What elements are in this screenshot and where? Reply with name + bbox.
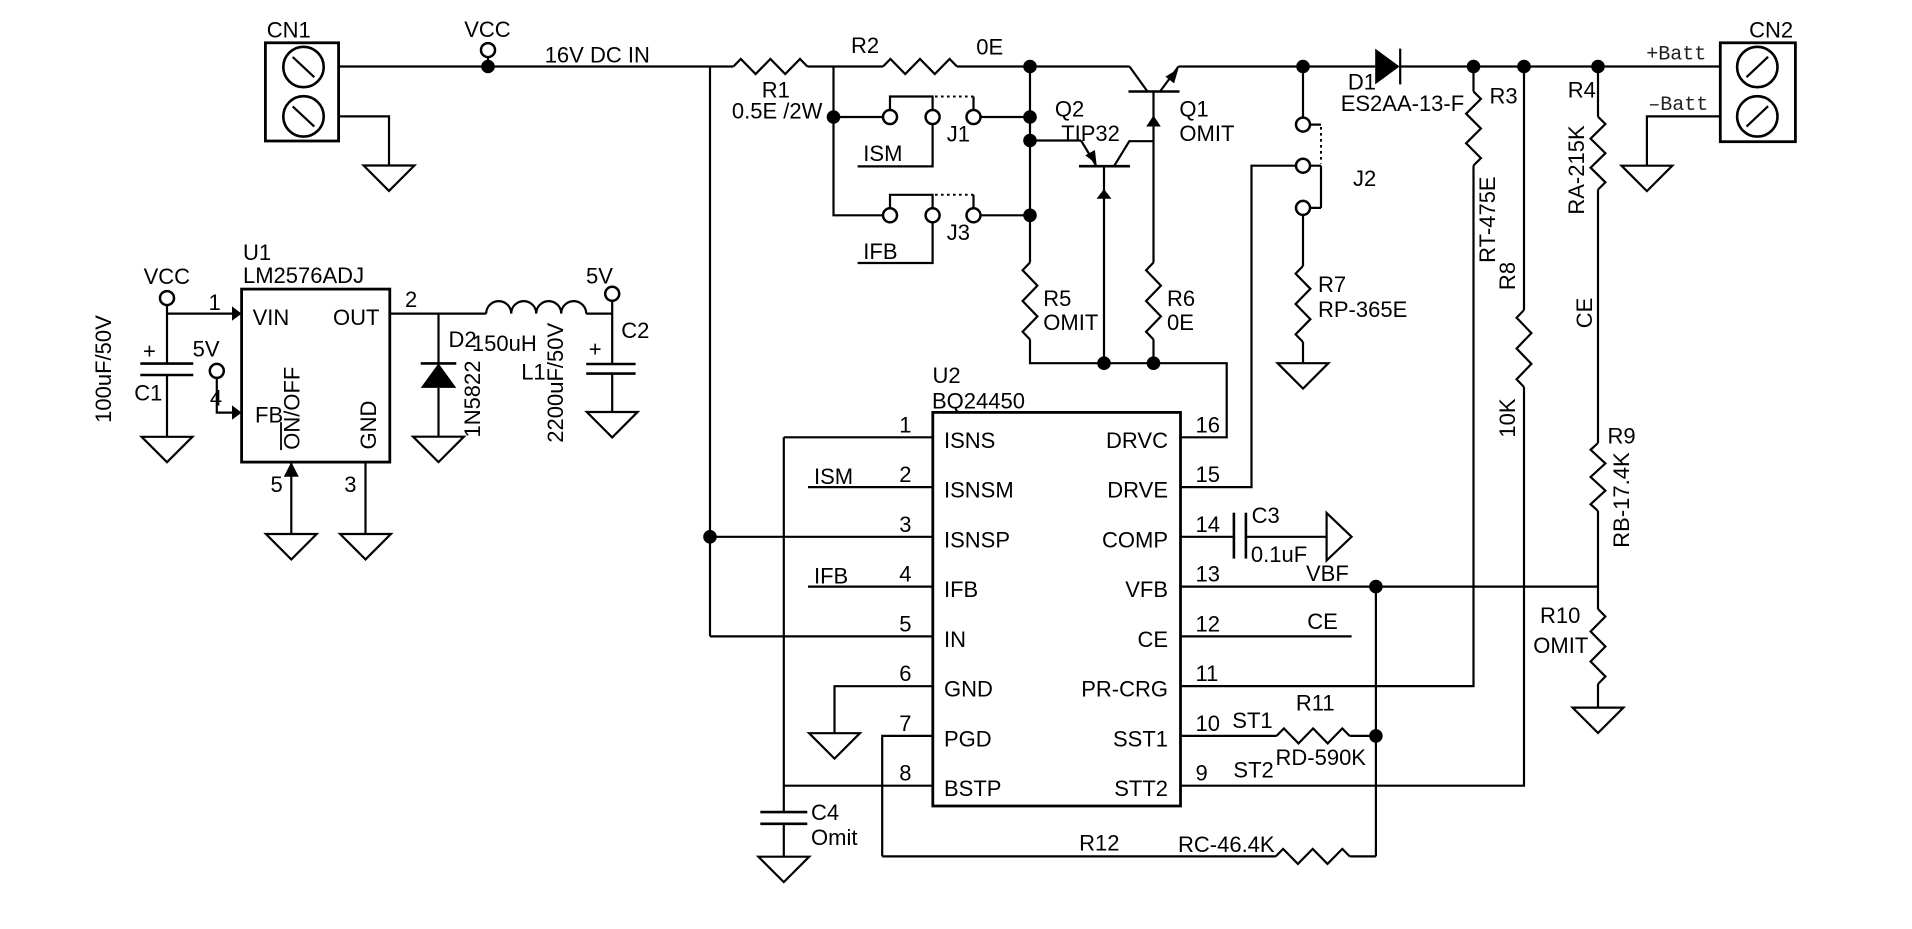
net label ISM (pin2)	[808, 486, 933, 488]
junction J2 branch	[1296, 60, 1310, 74]
svg-text:IFB: IFB	[814, 564, 848, 589]
junction J1 branch	[827, 110, 841, 124]
power node 5V (U1)	[210, 364, 224, 378]
wire R1 to R2	[807, 65, 883, 67]
svg-text:IFB: IFB	[863, 239, 897, 264]
diode D1 (ES2AA-13-F)	[1375, 49, 1400, 85]
wire bus down to R5	[1029, 67, 1031, 263]
ground (U1 pin3)	[340, 534, 391, 559]
ground (C1)	[142, 437, 193, 462]
svg-text:0E: 0E	[1167, 310, 1194, 335]
svg-text:7: 7	[899, 711, 911, 736]
svg-text:8: 8	[899, 761, 911, 786]
ground (U1 pin5)	[266, 534, 317, 559]
svg-text:+: +	[143, 339, 156, 364]
svg-text:DRVC: DRVC	[1106, 428, 1168, 453]
svg-text:R6: R6	[1167, 286, 1195, 311]
wire CN1 pin2 to ground	[339, 116, 389, 165]
ground (R7)	[1278, 363, 1329, 388]
svg-text:9: 9	[1196, 761, 1208, 786]
wire bus to Q2 emitter	[1030, 139, 1081, 141]
svg-text:13: 13	[1196, 562, 1220, 587]
diode D2 (1N5822)	[421, 314, 457, 437]
resistor R2	[883, 59, 957, 74]
resistor R4 (RA-215K)	[1597, 67, 1599, 117]
wire GND pin6 to ground	[835, 686, 934, 733]
resistor R5 (OMIT)	[1023, 263, 1038, 340]
svg-text:ISNSM: ISNSM	[944, 478, 1014, 503]
svg-text:Omit: Omit	[811, 825, 857, 850]
wire J3 pin2 to IFB stub	[858, 222, 933, 263]
svg-text:0.1uF: 0.1uF	[1251, 542, 1307, 567]
ground (D2)	[413, 437, 464, 462]
svg-text:RB-17.4K: RB-17.4K	[1609, 452, 1634, 548]
svg-text:5: 5	[271, 472, 283, 497]
svg-text:SST1: SST1	[1113, 726, 1168, 751]
junction J1 bus	[1023, 110, 1037, 124]
svg-text:1: 1	[899, 412, 911, 437]
wire J1 pin2 to ISM stub	[858, 124, 933, 166]
resistor R6 (0E)	[1146, 263, 1161, 340]
svg-text:5: 5	[899, 611, 911, 636]
inductor L1 (150uH)	[486, 301, 586, 314]
svg-text:R5: R5	[1043, 286, 1071, 311]
svg-text:OMIT: OMIT	[1179, 121, 1234, 146]
svg-text:+Batt: +Batt	[1646, 44, 1706, 67]
resistor R9 (RB-17.4K)	[1591, 443, 1606, 511]
wire R9 to R10 junction	[1597, 511, 1599, 609]
ground (CN2)	[1622, 166, 1673, 191]
svg-text:2: 2	[899, 462, 911, 487]
svg-text:R3: R3	[1490, 84, 1518, 109]
junction R3 rail	[1467, 60, 1481, 74]
capacitor C1 (100uF/50V)	[140, 314, 193, 437]
wire SST1 pin10 to R11	[1181, 735, 1277, 737]
svg-text:RD-590K: RD-590K	[1276, 745, 1367, 770]
junction ISNSP bus	[703, 530, 717, 544]
connector CN1	[265, 43, 338, 141]
svg-text:IFB: IFB	[944, 577, 978, 602]
svg-text:RA-215K: RA-215K	[1564, 125, 1589, 215]
svg-text:OUT: OUT	[333, 305, 379, 330]
wire J2 pin3 to R7	[1302, 215, 1304, 266]
svg-text:R10: R10	[1540, 603, 1580, 628]
connector CN2	[1720, 43, 1795, 142]
wire J2 pin2 to DRVE pin15	[1181, 166, 1297, 487]
svg-text:5V: 5V	[586, 263, 613, 288]
svg-text:R11: R11	[1296, 691, 1335, 716]
junction Q2 emitter bus	[1023, 134, 1037, 148]
svg-text:R7: R7	[1318, 272, 1346, 297]
svg-text:BSTP: BSTP	[944, 776, 1001, 801]
wire ON/OFF pin5 to ground	[290, 462, 292, 534]
transistor Q2 (TIP32)	[1079, 141, 1154, 364]
svg-text:ST2: ST2	[1233, 758, 1273, 783]
wire 5V to FB pin4	[217, 378, 233, 413]
svg-text:C2: C2	[621, 318, 649, 343]
wire J1 pin3 to bus	[981, 116, 1031, 118]
svg-text:J3: J3	[947, 220, 970, 245]
resistor R12 (RC-46.4K)	[1276, 849, 1350, 864]
wire VCC rail to IN bus	[709, 67, 711, 637]
svg-text:16V DC IN: 16V DC IN	[545, 43, 650, 68]
transistor Q1 (OMIT)	[1129, 67, 1180, 263]
resistor R3 (RT-475E)	[1472, 67, 1474, 92]
wire CN2 pin2 to ground	[1647, 116, 1720, 165]
wire D1 to CN2 (+Batt)	[1400, 65, 1720, 67]
svg-text:Q2: Q2	[1055, 97, 1084, 122]
jumper J1	[883, 97, 981, 125]
resistor R8 (10K)	[1523, 67, 1525, 311]
wire R3 to PR-CRG pin11	[1181, 166, 1474, 687]
svg-text:CE: CE	[1137, 627, 1168, 652]
svg-text:IN: IN	[944, 627, 966, 652]
svg-text:3: 3	[899, 512, 911, 537]
junction VCC rail	[481, 60, 495, 74]
wire ISNS pin1	[784, 436, 933, 438]
svg-text:J1: J1	[947, 122, 970, 147]
svg-text:R2: R2	[851, 33, 879, 58]
svg-text:RP-365E: RP-365E	[1318, 297, 1407, 322]
capacitor C2 (2200uF/50V)	[586, 364, 635, 412]
power node 5V (C2)	[605, 287, 619, 301]
svg-text:OMIT: OMIT	[1043, 310, 1098, 335]
ground (U2 GND)	[809, 733, 860, 758]
junction R6 rail	[1147, 356, 1161, 370]
svg-text:C4: C4	[811, 800, 839, 825]
wire rail to J2	[1302, 67, 1304, 118]
svg-text:R12: R12	[1079, 831, 1119, 856]
net arrow VBF	[1327, 513, 1352, 561]
svg-text:ISNSP: ISNSP	[944, 527, 1010, 552]
svg-text:TIP32: TIP32	[1061, 121, 1120, 146]
svg-text:J2: J2	[1353, 166, 1376, 191]
svg-text:ISM: ISM	[863, 141, 902, 166]
svg-text:0E: 0E	[976, 35, 1003, 60]
svg-text:RT-475E: RT-475E	[1475, 176, 1500, 262]
svg-text:PGD: PGD	[944, 726, 992, 751]
svg-text:CE: CE	[1307, 609, 1338, 634]
power node VCC (U1)	[160, 291, 174, 305]
junction R11	[1369, 729, 1383, 743]
wire VFB junction to R12	[1375, 587, 1377, 857]
svg-text:1N5822: 1N5822	[460, 360, 485, 437]
svg-text:COMP: COMP	[1102, 527, 1168, 552]
resistor R11 (RD-590K)	[1277, 728, 1350, 743]
capacitor C3 (0.1uF)	[1234, 513, 1246, 559]
wire L1 to 5V node	[586, 301, 612, 364]
svg-text:R4: R4	[1568, 77, 1596, 102]
wire CN1 pin1 to R1 (VCC rail)	[339, 65, 734, 67]
wire R7 to ground	[1302, 342, 1304, 363]
svg-text:CE: CE	[1572, 298, 1597, 329]
resistor R1	[733, 59, 807, 74]
svg-text:STT2: STT2	[1114, 776, 1168, 801]
svg-text:0.5E /2W: 0.5E /2W	[732, 99, 823, 124]
ground (C2)	[587, 412, 638, 437]
wire IN pin5	[710, 635, 933, 637]
svg-text:L1: L1	[521, 360, 545, 385]
svg-text:6: 6	[899, 661, 911, 686]
IC U2 (BQ24450)	[933, 412, 1181, 806]
svg-text:CN1: CN1	[267, 18, 311, 43]
wire R10 to ground	[1597, 684, 1599, 708]
svg-text:16: 16	[1196, 412, 1220, 437]
wire COMP pin14 to C3	[1181, 536, 1234, 538]
svg-text:VBF: VBF	[1306, 561, 1349, 586]
svg-text:PR-CRG: PR-CRG	[1081, 677, 1168, 702]
svg-text:U1: U1	[243, 240, 271, 265]
svg-text:150uH: 150uH	[472, 331, 537, 356]
capacitor C4 (Omit)	[760, 786, 807, 857]
resistor R10 (OMIT)	[1591, 609, 1606, 684]
wire to J1 pin1	[834, 116, 884, 118]
junction R2 output	[1023, 60, 1037, 74]
ground (CN1)	[364, 166, 415, 191]
svg-text:GND: GND	[944, 677, 993, 702]
wire PGD pin7 to R12	[882, 736, 933, 857]
junction R8 rail	[1517, 60, 1531, 74]
ground (C4)	[758, 857, 809, 882]
wire R1-R2 node down to J3	[834, 67, 884, 216]
wire C3 to VBF arrow	[1246, 536, 1327, 538]
svg-text:LM2576ADJ: LM2576ADJ	[243, 263, 364, 288]
wire R6 bottom	[1152, 340, 1154, 364]
junction VFB	[1369, 580, 1383, 594]
resistor R7	[1296, 266, 1311, 342]
svg-text:C3: C3	[1252, 503, 1280, 528]
svg-text:DRVE: DRVE	[1107, 478, 1168, 503]
wire R8 to STT2 pin9	[1181, 387, 1525, 786]
wire VCC to VIN pin1	[167, 305, 233, 313]
net label IFB (pin4)	[808, 585, 933, 587]
svg-text:12: 12	[1196, 611, 1220, 636]
svg-text:C1: C1	[134, 381, 162, 406]
svg-text:–Batt: –Batt	[1648, 94, 1708, 117]
wire VFB pin13 to divider	[1181, 585, 1599, 587]
svg-text:ISNS: ISNS	[944, 428, 995, 453]
svg-text:U2: U2	[933, 363, 961, 388]
wire R12 to junction	[1350, 855, 1376, 857]
svg-text:VFB: VFB	[1125, 577, 1168, 602]
svg-text:2200uF/50V: 2200uF/50V	[543, 323, 568, 443]
svg-text:1: 1	[209, 290, 221, 315]
junction J3 bus	[1023, 209, 1037, 223]
ground (R10)	[1573, 708, 1624, 733]
wire drive rail to DRVC pin16	[1030, 340, 1227, 438]
net label CE (pin12)	[1181, 635, 1352, 637]
svg-text:ST1: ST1	[1232, 708, 1272, 733]
svg-text:10: 10	[1196, 711, 1220, 736]
svg-text:RC-46.4K: RC-46.4K	[1178, 832, 1275, 857]
power node VCC	[481, 43, 495, 57]
svg-text:R9: R9	[1608, 424, 1636, 449]
svg-text:+: +	[589, 337, 602, 362]
wire OUT pin2 to L1	[390, 313, 486, 315]
wire R4 to R9 (net CE)	[1597, 190, 1599, 443]
wire R11 to junction	[1350, 735, 1376, 737]
svg-text:14: 14	[1196, 512, 1220, 537]
svg-text:VCC: VCC	[144, 264, 191, 289]
svg-text:5V: 5V	[193, 337, 220, 362]
svg-text:2: 2	[405, 287, 417, 312]
wire R2 to Q1	[957, 65, 1130, 67]
svg-text:VIN: VIN	[253, 305, 290, 330]
svg-text:CN2: CN2	[1749, 18, 1793, 43]
svg-text:BQ24450: BQ24450	[932, 389, 1025, 414]
svg-text:R8: R8	[1495, 262, 1520, 290]
wire BSTP pin8	[784, 785, 933, 787]
svg-text:ES2AA-13-F: ES2AA-13-F	[1341, 91, 1465, 116]
wire Q1 emitter to D1	[1179, 65, 1376, 67]
junction R4 rail	[1591, 60, 1605, 74]
wire pin1 to pin8 vertical	[783, 437, 785, 785]
svg-text:ISM: ISM	[814, 464, 853, 489]
junction Q2 base rail	[1097, 356, 1111, 370]
wire J3 pin3 to bus	[981, 214, 1031, 216]
svg-text:Q1: Q1	[1179, 97, 1208, 122]
wire R12 line	[882, 855, 1275, 857]
jumper J2	[1296, 118, 1321, 215]
wire GND pin3 to ground	[364, 462, 366, 534]
svg-text:3: 3	[344, 472, 356, 497]
svg-text:10K: 10K	[1495, 398, 1520, 437]
svg-text:15: 15	[1196, 462, 1220, 487]
svg-text:VCC: VCC	[464, 17, 511, 42]
svg-text:GND: GND	[356, 401, 381, 450]
svg-text:ON/OFF: ON/OFF	[280, 367, 305, 450]
wire ISNSP pin3	[710, 536, 933, 538]
svg-text:11: 11	[1196, 661, 1219, 686]
jumper J3	[883, 195, 981, 223]
IC U1 (LM2576ADJ)	[242, 289, 390, 462]
svg-text:4: 4	[899, 562, 911, 587]
svg-text:OMIT: OMIT	[1533, 633, 1588, 658]
svg-text:100uF/50V: 100uF/50V	[91, 315, 116, 423]
